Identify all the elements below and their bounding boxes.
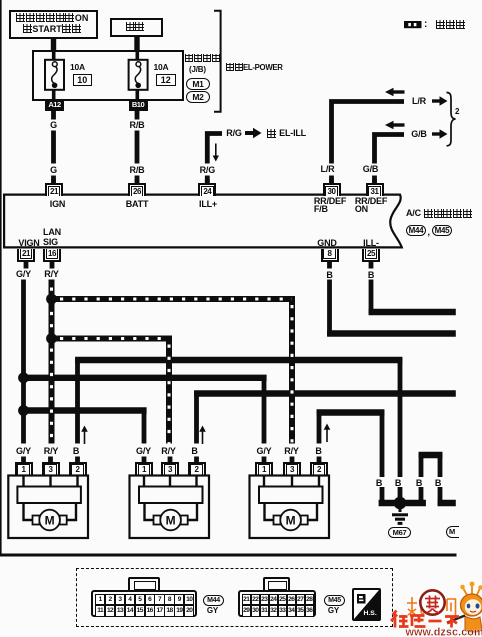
svg-text:H.S.: H.S.	[364, 610, 377, 617]
svg-text:M: M	[286, 514, 296, 528]
svg-text:M: M	[45, 514, 55, 528]
svg-text:M: M	[166, 514, 176, 528]
svg-text:www.dzsc.com: www.dzsc.com	[405, 627, 482, 637]
